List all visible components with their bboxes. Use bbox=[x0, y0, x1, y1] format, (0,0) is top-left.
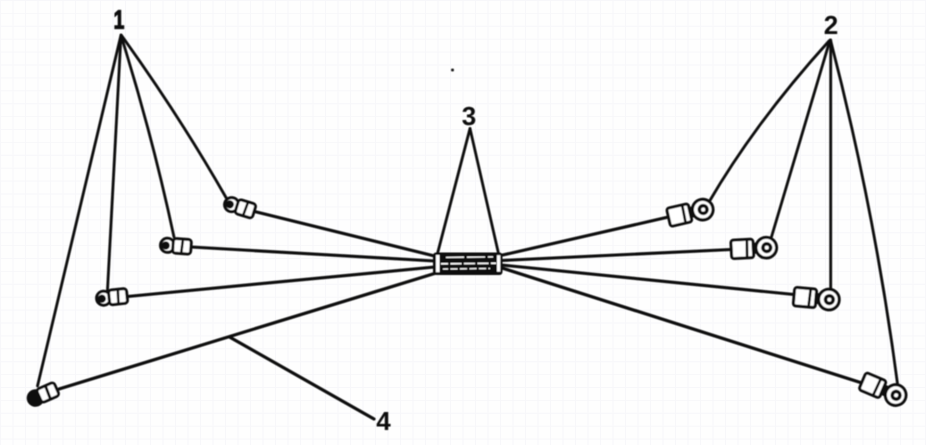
svg-text:2: 2 bbox=[824, 10, 838, 40]
harness bundle (item 3) bbox=[433, 253, 503, 276]
left cable tie bbox=[436, 255, 440, 272]
leader line from 2 to ring terminal C7 bbox=[829, 40, 832, 288]
bullet connector C1 bbox=[223, 196, 256, 219]
ring terminal C4 (solid eye) bbox=[24, 381, 60, 410]
leader line from 1 to ring terminal C4 bbox=[38, 35, 122, 386]
leader line from 4 to wire W4 bbox=[230, 337, 375, 419]
leader line from 2 to ring terminal C6 bbox=[771, 40, 830, 239]
stray ink speck bbox=[451, 69, 454, 72]
leader line from 1 to bullet connector C2 bbox=[121, 36, 174, 238]
ring terminal C7 bbox=[793, 286, 840, 310]
bullet connector C3 bbox=[96, 288, 128, 306]
svg-text:1: 1 bbox=[114, 5, 125, 35]
ring terminal C5 bbox=[666, 197, 715, 227]
wire from connector C1 to bundle bbox=[255, 212, 435, 257]
bullet connector C2 bbox=[160, 238, 191, 255]
leader line from 2 to ring terminal C8 bbox=[831, 40, 898, 384]
leader line from 3 to left tie of bundle bbox=[438, 129, 471, 254]
wire from bundle to terminal C6 bbox=[502, 250, 732, 261]
right cable tie bbox=[497, 255, 500, 272]
leader line from 2 to ring terminal C5 bbox=[709, 41, 829, 202]
leader line from 3 to right tie of bundle bbox=[470, 129, 499, 254]
svg-text:4: 4 bbox=[376, 406, 391, 436]
leader line from 1 to bullet connector C1 bbox=[122, 36, 227, 198]
wire from connector C3 to bundle bbox=[128, 267, 435, 297]
wire from terminal C4 to bundle (item 4) bbox=[59, 274, 435, 390]
wire from bundle to terminal C8 bbox=[502, 268, 863, 383]
ring terminal C6 bbox=[731, 237, 777, 260]
wire from bundle to terminal C7 bbox=[502, 265, 795, 295]
wire from connector C2 to bundle bbox=[191, 247, 434, 261]
svg-text:3: 3 bbox=[462, 101, 476, 131]
ring terminal C8 bbox=[858, 372, 909, 409]
leader line from 1 to bullet connector C3 bbox=[108, 35, 122, 290]
wire from bundle to terminal C5 bbox=[502, 217, 668, 255]
